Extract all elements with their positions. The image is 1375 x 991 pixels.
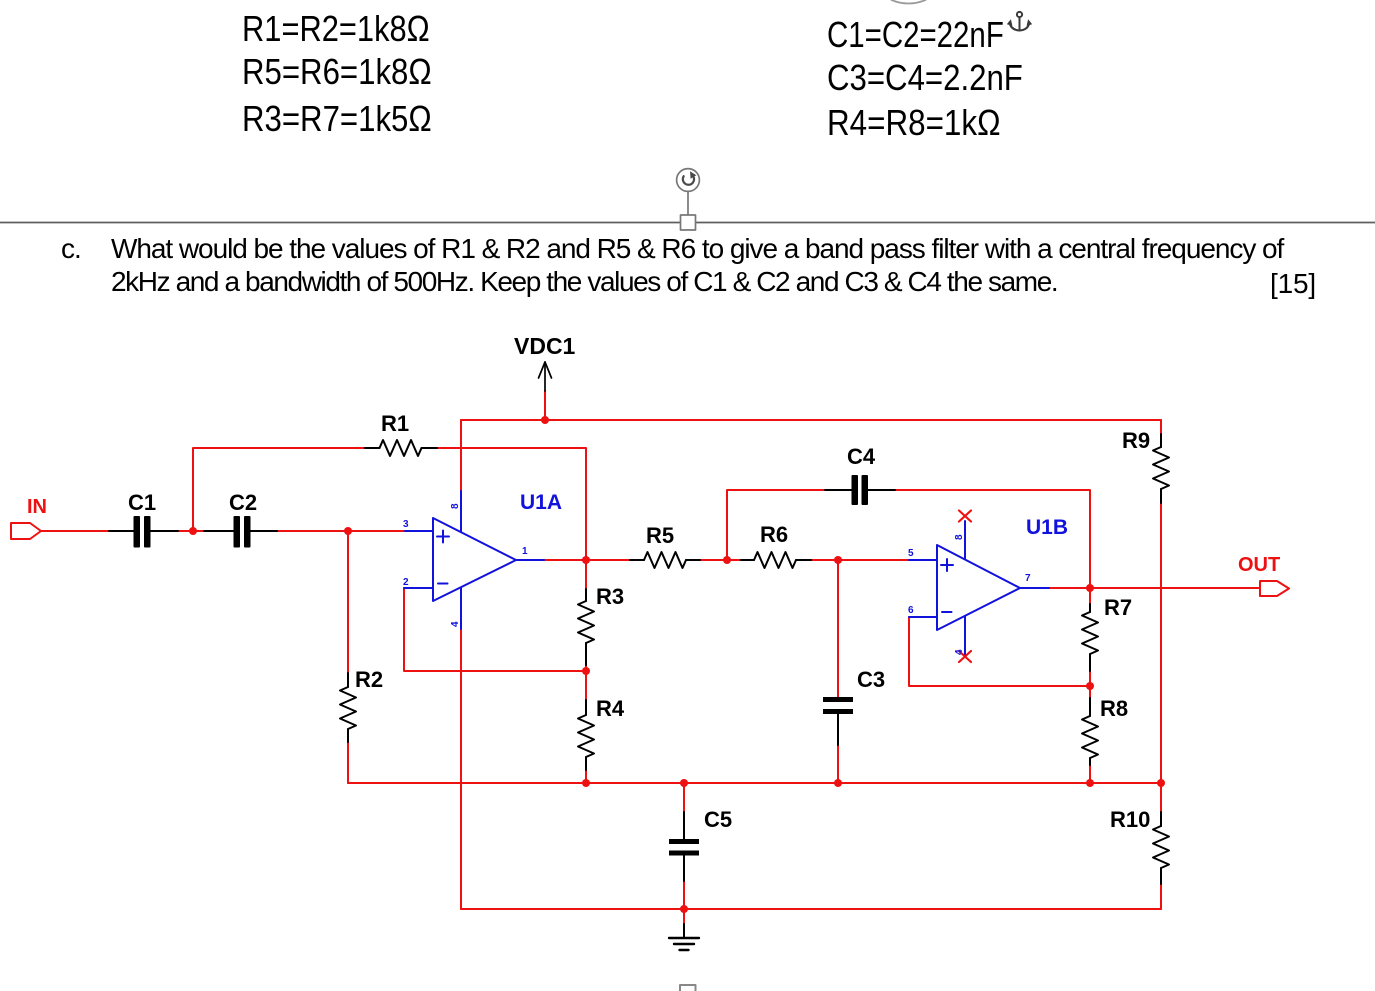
junction node (586,783) (582, 779, 590, 787)
value text R4=R8=1k (827, 102, 1001, 144)
resistor R4 (578, 700, 594, 770)
op-amp U1B (909, 521, 1049, 657)
svg-text:2: 2 (403, 577, 409, 588)
wire VDC1 to rail (544, 391, 546, 420)
wire R8 to mid rail (1089, 765, 1091, 783)
svg-text:U1A: U1A (520, 491, 562, 514)
wire U1A out to R5 (544, 559, 630, 561)
svg-text:R2: R2 (355, 667, 383, 692)
wire node A vertical to R1 (193, 448, 365, 531)
port IN (11, 523, 41, 539)
resistor R10 (1153, 812, 1169, 884)
wire U1A pin4 to ground rail (460, 629, 462, 909)
junction node (1090,686) (1086, 682, 1094, 690)
resistor R6 (741, 552, 811, 568)
wire out node to R7 (1089, 588, 1091, 604)
wire R3 to node B (585, 665, 587, 671)
wire C4 to U1B out node (895, 490, 1090, 588)
wire mid rail (348, 782, 1161, 784)
wire IN to C1 (41, 530, 109, 532)
wire rail to R9 (1160, 420, 1162, 434)
junction node (684,909) (680, 905, 688, 913)
question line 2 (111, 266, 1057, 298)
svg-text:1: 1 (522, 546, 528, 557)
wire U1B out to OUT port (1049, 587, 1260, 589)
junction node (193,531) (189, 527, 197, 535)
value text R1=R2=1k8 (242, 8, 430, 50)
wire R5 to R6 node (700, 559, 741, 561)
bottom-center resize handle (680, 985, 696, 991)
wire R7 to node C (1089, 671, 1091, 686)
resistor R9 (1153, 434, 1169, 503)
svg-text:R3: R3 (596, 584, 624, 609)
anchor icon (1007, 12, 1032, 31)
svg-text:C4: C4 (847, 444, 876, 469)
svg-text:C5: C5 (704, 807, 732, 832)
resistor R5 (630, 552, 700, 568)
wire node B to R4 (585, 671, 587, 700)
svg-text:8: 8 (954, 534, 965, 540)
wire U1A pin2 feedback (404, 588, 586, 671)
resistor R8 (1082, 698, 1098, 765)
svg-text:4: 4 (954, 649, 965, 655)
capacitor C4 (825, 476, 895, 504)
junction node (684,783) (680, 779, 688, 787)
svg-text:IN: IN (27, 496, 47, 518)
value text R5=R6=1k8 (242, 51, 432, 93)
junction node (1090,783) (1086, 779, 1094, 787)
resistor R3 (578, 589, 594, 665)
capacitor C5 (669, 812, 699, 881)
wire R6 to U1B pin5 (811, 559, 909, 561)
junction node (1161,783) (1157, 779, 1165, 787)
svg-text:5: 5 (908, 548, 914, 559)
divider line (0, 222, 1375, 224)
no-connect X U1B pin4 (959, 651, 971, 662)
wire mid rail to R10 (1160, 783, 1162, 812)
capacitor C2 (204, 517, 277, 547)
wire R2 to mid rail (347, 742, 349, 783)
junction node (838,783) (834, 779, 842, 787)
junction node (545,420) (541, 416, 549, 424)
top edge artifact (892, 0, 926, 4)
svg-text:3: 3 (403, 519, 409, 530)
junction node (838,560) (834, 556, 842, 564)
question line c. (61, 233, 81, 265)
capacitor C3 (823, 697, 853, 745)
junction node (348,531) (344, 527, 352, 535)
svg-text:R9: R9 (1122, 428, 1150, 453)
svg-text:R6: R6 (760, 522, 788, 547)
power symbol VDC1 arrow (539, 362, 552, 391)
junction node (1090,588) (1086, 584, 1094, 592)
marks [15] (1270, 268, 1316, 300)
svg-text:7: 7 (1025, 573, 1031, 584)
wire C2 to U1A pin3 (277, 530, 405, 532)
svg-text:C3: C3 (857, 667, 885, 692)
svg-text:R1: R1 (381, 411, 409, 436)
wire R10 to ground rail (1160, 884, 1162, 909)
wire R6 node down to C3 (837, 560, 839, 697)
svg-text:C1: C1 (128, 490, 156, 515)
svg-text:OUT: OUT (1238, 554, 1280, 576)
svg-text:R7: R7 (1104, 595, 1132, 620)
wire R9 down right side (1160, 503, 1162, 783)
wire C2 node down to R2 (347, 531, 349, 673)
junction node (586,671) (582, 667, 590, 675)
ground (669, 924, 699, 950)
wire U1B pin6 feedback (909, 617, 1090, 686)
svg-text:4: 4 (450, 621, 461, 627)
resistor R7 (1082, 604, 1098, 671)
wire C1 to C2 node (178, 530, 204, 532)
wire rail to U1A pin8 (460, 420, 462, 491)
svg-text:8: 8 (450, 503, 461, 509)
wire C3 to mid rail (837, 745, 839, 783)
wire C5 to ground rail (683, 881, 685, 924)
wire mid rail to C5 (683, 783, 685, 812)
junction node (727,560) (723, 556, 731, 564)
wire out node to R3 (585, 560, 587, 589)
question line 1 (111, 233, 1283, 265)
wire ground rail (461, 908, 1161, 910)
resistor R2 (340, 673, 356, 742)
value text C3=C4=2.2nF (827, 57, 1023, 99)
svg-text:C2: C2 (229, 490, 257, 515)
svg-text:6: 6 (908, 605, 914, 616)
svg-text:R5: R5 (646, 523, 674, 548)
svg-text:U1B: U1B (1026, 516, 1068, 539)
wire node to C4 (727, 490, 825, 560)
no-connect X U1B pin8 (959, 511, 971, 522)
value text R3=R7=1k5 (242, 98, 432, 140)
wire R4 to mid rail (585, 770, 587, 783)
value text C1=C2=22nF (827, 14, 1004, 56)
svg-text:VDC1: VDC1 (514, 333, 576, 359)
top-center resize handle (681, 215, 696, 230)
resistor R1 (365, 440, 437, 456)
wire R1 to output node (437, 448, 586, 560)
svg-text:R4: R4 (596, 696, 625, 721)
rotate handle (677, 169, 700, 215)
port OUT (1260, 581, 1289, 596)
capacitor C1 (109, 517, 178, 547)
svg-text:R8: R8 (1100, 696, 1128, 721)
junction node (586,560) (582, 556, 590, 564)
wire node C to R8 (1089, 686, 1091, 698)
svg-text:R10: R10 (1110, 807, 1150, 832)
wire top rail VCC (461, 419, 1161, 421)
op-amp U1A (404, 491, 544, 629)
